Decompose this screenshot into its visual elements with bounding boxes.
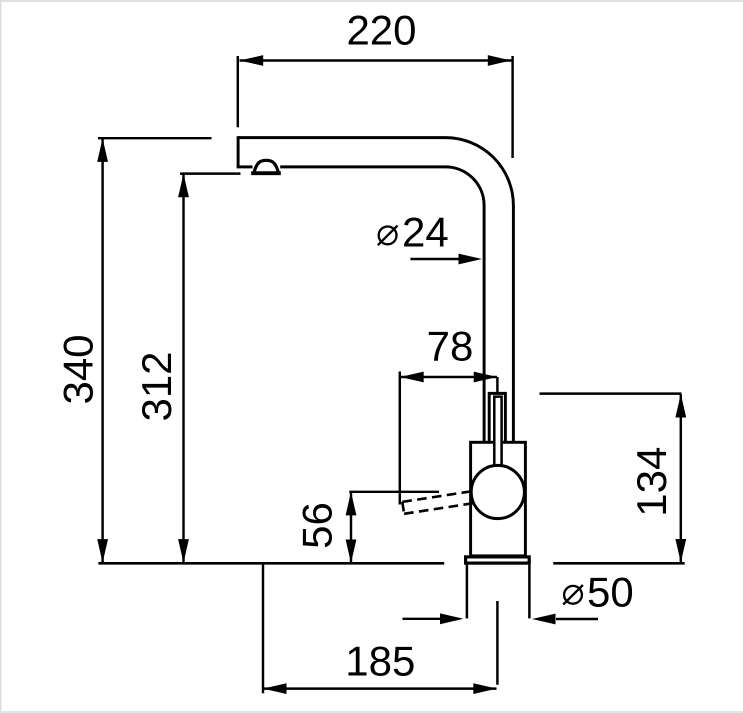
dimension 78 right extension stub	[496, 377, 498, 392]
dimension 78 line with arrows	[400, 372, 497, 383]
faucet body rectangle	[471, 442, 526, 556]
base flange	[466, 557, 530, 563]
dimension 185 line with arrows	[263, 683, 497, 694]
faucet spout outer contour: top edge, outer bend, pipe right edge	[238, 138, 513, 442]
svg-text:50: 50	[587, 569, 634, 616]
svg-text:220: 220	[346, 7, 416, 54]
dimension 185 left extension line	[262, 564, 264, 694]
dimension 220 line with arrows	[240, 55, 512, 66]
dimension 312 top extension line	[180, 172, 241, 174]
dimension 78 left extension line	[399, 372, 401, 505]
dimension 220 left extension line	[237, 56, 239, 127]
diameter 24 leader arrow	[410, 254, 482, 265]
dashed lever end cap	[402, 502, 404, 514]
faucet spout inner contour: bottom edge, inner bend, pipe left edge	[280, 167, 484, 441]
svg-text:56: 56	[294, 502, 341, 549]
dimension 340 top extension line	[98, 137, 212, 139]
dimension 56 top extension line	[349, 491, 439, 493]
diameter 50 phi symbol	[563, 585, 583, 605]
lever joint ball	[471, 465, 524, 518]
svg-text:340: 340	[55, 334, 102, 404]
below-deck pipe left edge	[466, 565, 469, 619]
svg-text:78: 78	[427, 323, 474, 370]
svg-text:134: 134	[628, 447, 675, 517]
aerator dome on spout outlet	[254, 160, 278, 172]
diameter 50 left leader arrow	[403, 613, 464, 624]
lever rod inner outline, passes into body down to joint ball	[494, 397, 501, 470]
dimension 312 line with arrows	[178, 174, 189, 563]
page border top	[0, 0, 743, 2]
dashed lever alternate position: upper edge	[402, 491, 471, 502]
deck counter line left segment	[98, 562, 444, 565]
dimension 56 line with arrows	[346, 492, 357, 563]
svg-text:312: 312	[133, 351, 180, 421]
dimension 134 top extension line	[540, 392, 682, 394]
diameter 50 right leader arrow	[532, 614, 598, 625]
dimension 134 line with arrows	[675, 394, 686, 563]
page border bottom	[0, 711, 743, 713]
svg-text:24: 24	[402, 209, 449, 256]
faucet spout bottom edge left of aerator	[237, 165, 253, 168]
dashed lever alternate position: lower edge	[404, 503, 473, 514]
below-deck pipe right edge	[528, 565, 531, 619]
lever rod outer outline above body	[489, 393, 505, 442]
center line below body	[496, 601, 498, 685]
faucet spout left end cap	[237, 136, 240, 168]
aerator base bar	[251, 171, 281, 175]
deck counter line right segment	[553, 562, 684, 565]
diameter 24 phi symbol	[378, 226, 398, 246]
page border left	[0, 0, 2, 713]
dimension 220 right extension line	[511, 56, 513, 158]
dimension 340 line with arrows	[97, 138, 108, 562]
svg-text:185: 185	[345, 638, 415, 685]
